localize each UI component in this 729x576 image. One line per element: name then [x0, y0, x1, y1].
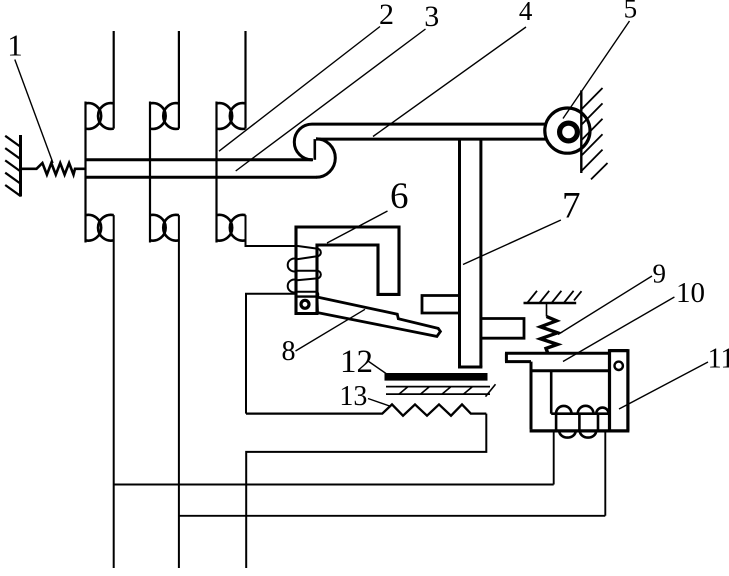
leader line 5	[563, 21, 630, 119]
fixed contact assembly, column 2 (lower jaw)	[150, 215, 179, 241]
resistor 13	[246, 404, 486, 415]
ceiling anchor of spring 9	[524, 291, 582, 303]
leader line 11	[619, 362, 708, 409]
right arm of link 7	[481, 319, 524, 339]
leader line 4	[373, 27, 526, 137]
insulating base of pad 12	[386, 384, 496, 396]
fixed contact assembly, column 1 (upper jaw)	[86, 31, 114, 243]
wire: column 1 to left coil terminal	[114, 484, 554, 486]
svg-text:1: 1	[7, 27, 23, 62]
wire: column-2 lower stem down to bottom edge	[178, 215, 180, 568]
leader line 1	[15, 60, 53, 164]
svg-text:3: 3	[424, 0, 439, 33]
coil of electromagnet 6	[288, 246, 321, 298]
contact pad 12	[385, 373, 488, 381]
fixed contact assembly, column 2 (upper jaw)	[150, 31, 179, 243]
wall anchor left	[5, 135, 21, 197]
spring 1 (return spring on blade)	[21, 163, 86, 175]
svg-text:6: 6	[390, 176, 409, 217]
fixed contact assembly, column 3 (upper jaw)	[217, 31, 246, 243]
vertical link 7	[458, 139, 482, 367]
pivot of armature 8	[301, 300, 309, 308]
leader line 12	[368, 361, 386, 374]
pivot block of armature 8	[296, 295, 317, 297]
svg-text:11: 11	[708, 343, 729, 374]
leader line 13	[368, 399, 391, 407]
sliding contact blade 3	[86, 124, 336, 177]
hinge pin of plate 10	[615, 362, 623, 370]
leader line 9	[558, 276, 652, 335]
leader line 3	[236, 29, 426, 171]
wire: resistor 13 right terminal down and to bottom edge	[246, 414, 486, 568]
armature plate 10	[505, 353, 610, 429]
core window of magnet 11	[551, 371, 609, 414]
electromagnet 6 core	[296, 227, 399, 314]
wire: armature-8 pivot block to resistor 13	[246, 294, 297, 414]
leader line 6	[327, 211, 388, 243]
svg-text:9: 9	[653, 259, 667, 289]
svg-text:4: 4	[519, 0, 533, 26]
crossbar 4	[312, 124, 548, 139]
armature lever 8	[317, 297, 440, 336]
leader line 2	[219, 27, 380, 152]
svg-text:8: 8	[282, 336, 296, 367]
fixed contact assembly, column 3 (lower jaw)	[217, 215, 246, 241]
svg-text:5: 5	[624, 0, 638, 24]
fixed contact assembly, column 1 (lower jaw)	[86, 215, 114, 241]
pivot bearing 5	[545, 108, 590, 153]
wire: column 2 to right coil terminal	[179, 515, 605, 517]
wire: column-1 lower stem down to bottom edge	[113, 215, 115, 568]
left arm of link 7	[422, 296, 458, 314]
svg-text:2: 2	[379, 0, 394, 31]
leader line 10	[563, 297, 674, 362]
svg-text:12: 12	[340, 344, 373, 380]
svg-text:7: 7	[562, 186, 581, 227]
wall anchor right (mount of pivot 5)	[581, 88, 607, 179]
spring 9	[546, 303, 548, 317]
electromagnet 11 yoke	[530, 349, 630, 431]
leader line 8	[296, 309, 366, 351]
coil of electromagnet 11	[556, 406, 609, 438]
svg-text:10: 10	[676, 277, 705, 309]
svg-text:13: 13	[339, 381, 367, 412]
wire: column-3 lower stem to coil of magnet 6	[246, 215, 297, 246]
S-hook joining blade 3 to crossbar 4	[294, 124, 312, 160]
leader line 7	[463, 220, 561, 265]
coil terminal wires of magnet 11	[553, 432, 555, 485]
